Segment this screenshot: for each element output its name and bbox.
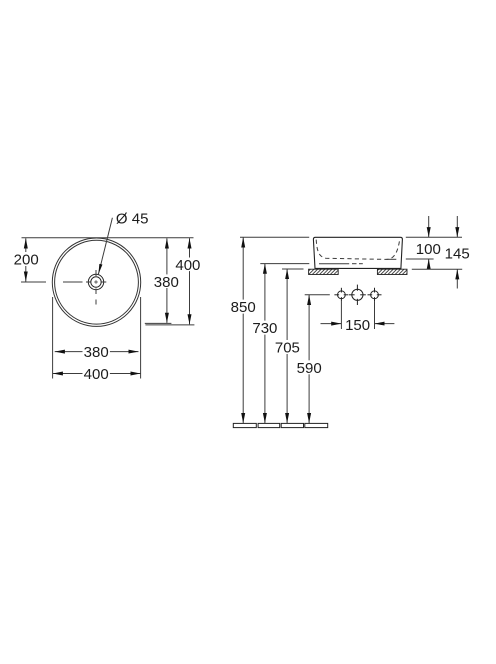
label 400 vertical — [175, 258, 201, 272]
floor tile 4 — [305, 423, 328, 427]
extension line below circle left — [52, 297, 54, 379]
dimension 400 vertical line — [189, 238, 191, 324]
label 705 — [274, 340, 301, 354]
horizontal centerline — [21, 281, 46, 283]
label 380 vertical — [152, 274, 181, 288]
label 400 horizontal — [83, 367, 110, 381]
hole center cross — [94, 280, 98, 284]
extension line below circle right — [140, 297, 142, 379]
floor tile 3 — [281, 423, 303, 427]
svg-text:150: 150 — [345, 317, 370, 334]
svg-text:705: 705 — [275, 340, 300, 357]
label 380 horizontal — [83, 345, 110, 359]
faucet hole center side view — [349, 285, 366, 305]
dimension 400 horizontal line — [53, 373, 141, 375]
counter line inside basin — [319, 263, 349, 265]
dimension 705 line — [286, 269, 288, 423]
dimension 730 line — [264, 264, 266, 424]
svg-text:Ø 45: Ø 45 — [116, 210, 149, 227]
dimension 590 line — [308, 295, 310, 423]
extension line 400 bottom — [145, 324, 194, 326]
mounting pad left hatched — [309, 269, 339, 274]
faucet hole right side view — [368, 288, 382, 302]
extension line 145 bottom — [412, 268, 462, 270]
label 850 — [230, 300, 257, 314]
faucet hole left side view — [334, 288, 348, 302]
extension line 150 left — [340, 302, 342, 329]
dimension 380 vertical line — [166, 238, 168, 323]
svg-text:145: 145 — [445, 245, 470, 262]
counter top line left of basin — [260, 263, 309, 265]
dimension 850 line — [242, 237, 244, 423]
dimension 100 bottom arrow — [428, 259, 430, 269]
dimension 100 top arrow — [428, 216, 430, 237]
mounting pad right hatched — [377, 269, 407, 274]
svg-text:380: 380 — [84, 344, 109, 361]
extension line 590 level — [305, 294, 330, 296]
inner bowl hidden contour dashed — [316, 240, 400, 260]
floor tile 2 — [258, 423, 280, 427]
dimension 145 bottom arrow — [456, 269, 458, 288]
extension line 705 level — [282, 268, 304, 270]
top extension line 100/145 — [406, 236, 462, 238]
label 730 — [251, 321, 278, 335]
basin outer rim circle 400 — [52, 238, 140, 326]
svg-text:400: 400 — [175, 257, 200, 274]
basin side view outline — [313, 237, 402, 268]
dimension 200 line — [25, 238, 27, 281]
svg-text:590: 590 — [297, 360, 322, 377]
svg-text:380: 380 — [154, 274, 179, 291]
faucet hole inner circle Ø45 — [91, 277, 101, 287]
basin inner rim circle 380 — [55, 240, 139, 324]
top extension line left view — [22, 237, 194, 239]
extension line 150 right — [374, 302, 376, 329]
dimension 145 top arrow — [456, 216, 458, 237]
svg-text:850: 850 — [231, 299, 256, 316]
bowl bottom solid segment right — [387, 258, 397, 260]
dimension 150 right arrow — [375, 323, 395, 325]
svg-text:100: 100 — [416, 241, 441, 258]
faucet hole outer circle — [88, 274, 103, 289]
leader line for Ø 45 — [98, 218, 112, 274]
svg-text:730: 730 — [252, 320, 277, 337]
vertical centerline of hole — [95, 270, 97, 276]
extension line 380 bottom — [145, 322, 172, 324]
label 590 — [296, 360, 323, 374]
floor tile 1 — [233, 423, 256, 427]
dimension 380 horizontal line — [55, 351, 139, 353]
svg-text:400: 400 — [84, 366, 109, 383]
dimension 150 left arrow — [321, 323, 342, 325]
label 200 — [13, 252, 39, 266]
svg-text:200: 200 — [14, 252, 39, 269]
extension line 100 bottom — [406, 258, 434, 260]
top extension line right view — [240, 236, 309, 238]
